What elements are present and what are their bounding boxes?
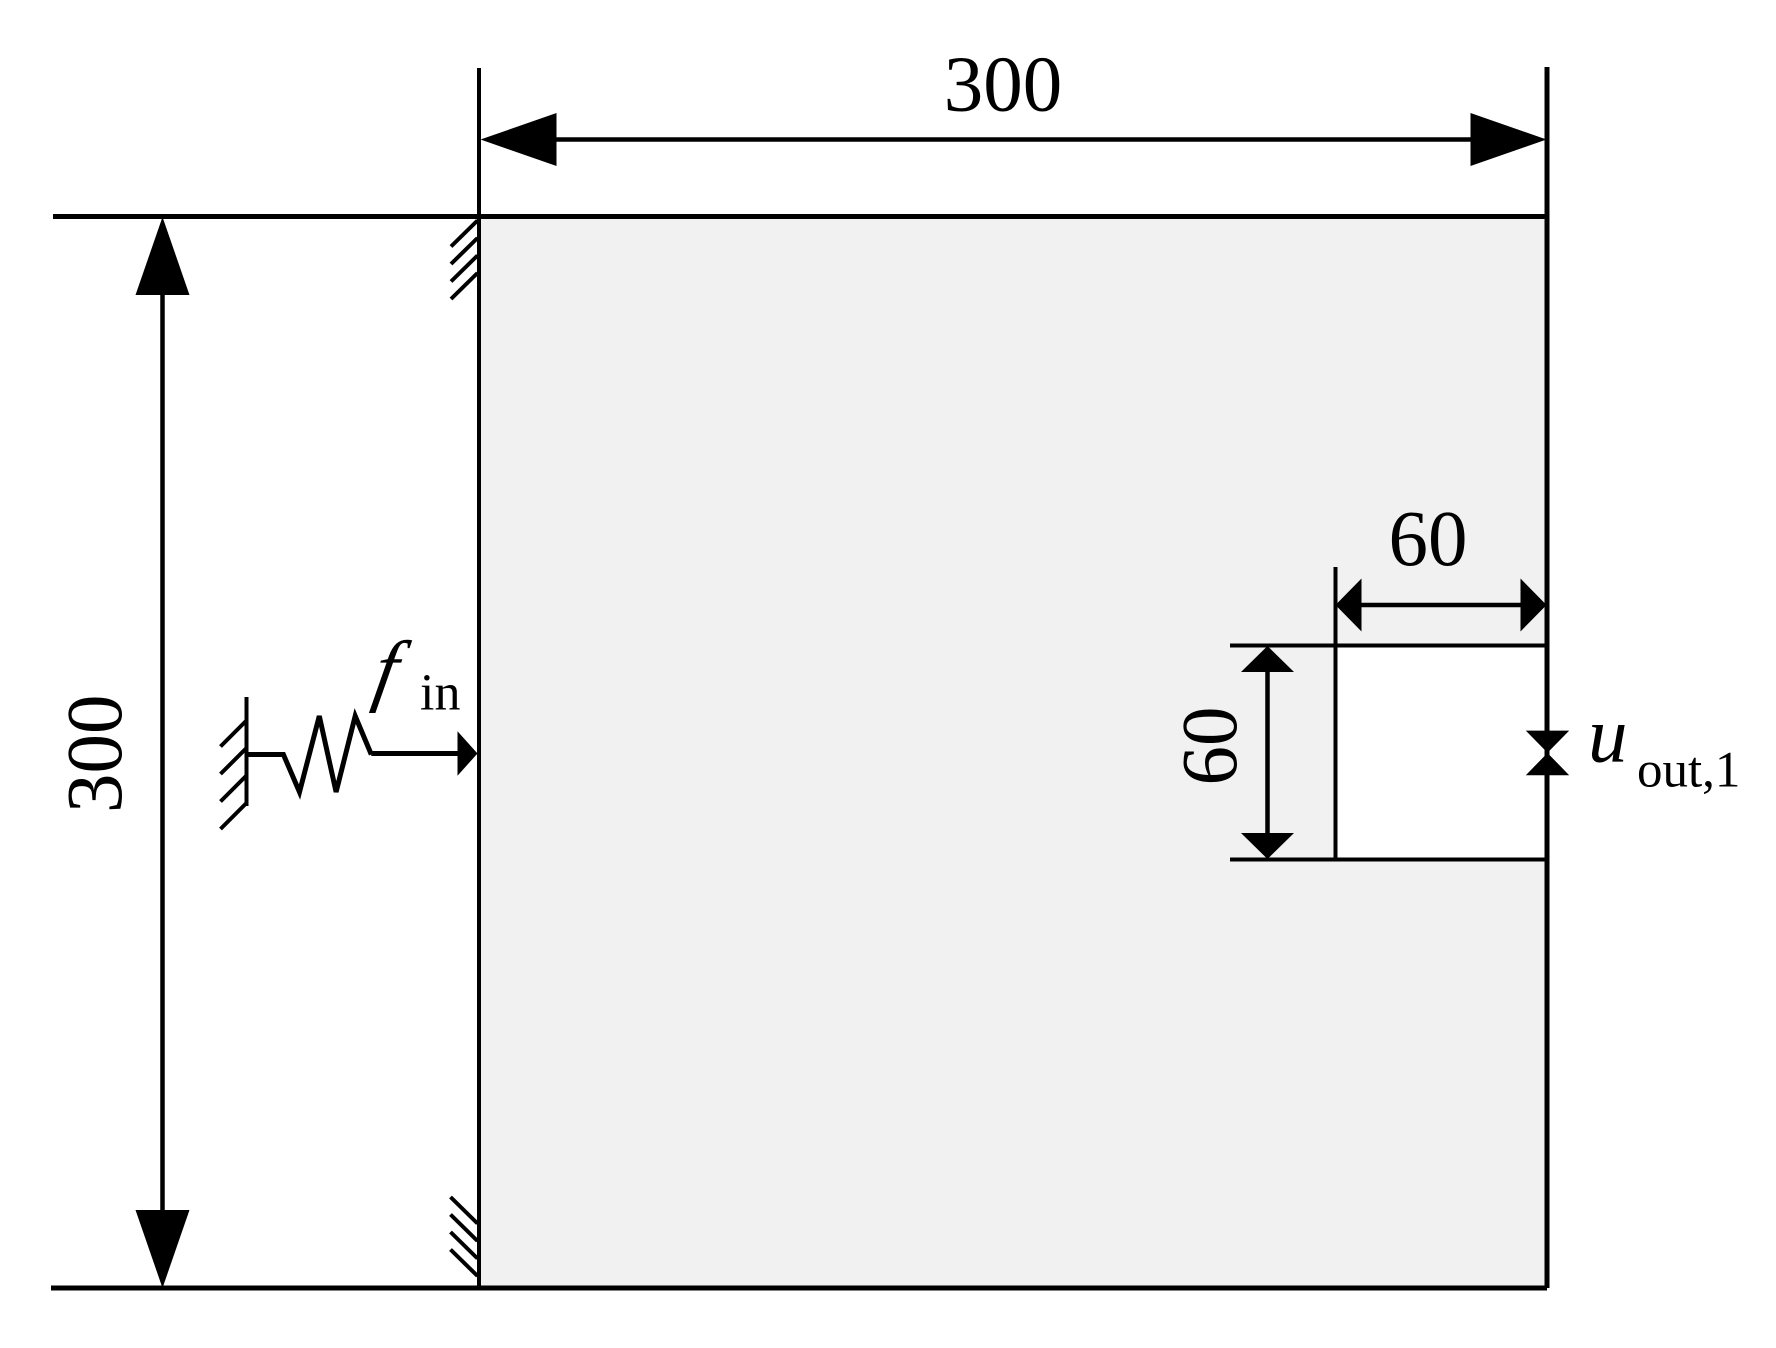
spring k_in zigzag [247, 716, 372, 792]
input force arrow shaft [371, 751, 459, 756]
notch height bottom arrowhead [1241, 833, 1294, 859]
notch left edge line (with extension up) [1334, 567, 1338, 860]
domain bottom edge line [51, 1286, 1547, 1291]
output displacement bowtie marker [1526, 731, 1569, 753]
fixed support hatching top-left corner [451, 221, 478, 300]
notch width left arrowhead [1336, 579, 1362, 632]
svg-text:300: 300 [52, 694, 139, 813]
left dimension line 300 [160, 230, 165, 1275]
top dimension left arrowhead [481, 113, 557, 166]
notch width dimension line 60 [1345, 603, 1537, 608]
top dimension right arrowhead [1471, 113, 1547, 166]
domain top edge line [53, 214, 1547, 219]
notch cutout (white 60x60) [1336, 646, 1548, 860]
notch top edge line [1230, 644, 1547, 648]
input force arrowhead [458, 731, 478, 775]
domain right edge line (with extension up) [1545, 67, 1550, 1288]
top dimension line 300 [500, 137, 1527, 142]
spring ground wall [245, 697, 249, 806]
svg-text:300: 300 [944, 42, 1063, 129]
svg-text:60: 60 [1389, 496, 1468, 583]
domain left edge line (with extension up) [477, 68, 481, 1288]
svg-text:in: in [420, 665, 460, 722]
design domain (gray square) [479, 217, 1547, 1289]
notch width right arrowhead [1521, 579, 1547, 632]
notch bottom edge line [1230, 858, 1547, 862]
left dimension bottom arrowhead [136, 1210, 190, 1288]
svg-text:u: u [1588, 693, 1628, 780]
spring ground wall hatching [221, 721, 247, 830]
svg-text:out,1: out,1 [1637, 743, 1740, 799]
left dimension top arrowhead [136, 217, 190, 295]
svg-text:60: 60 [1167, 707, 1254, 786]
fixed support hatching bottom-left corner [451, 1197, 478, 1276]
notch height dimension line 60 [1265, 655, 1270, 850]
svg-text:f: f [368, 626, 415, 714]
notch height top arrowhead [1241, 646, 1294, 672]
